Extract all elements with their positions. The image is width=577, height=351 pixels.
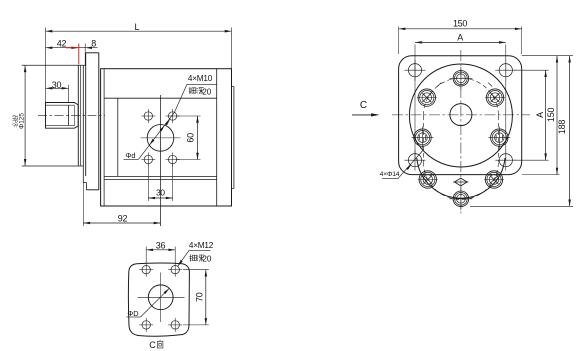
- svg-text:L: L: [134, 22, 139, 32]
- svg-text:C: C: [149, 340, 156, 350]
- svg-text:ΦD: ΦD: [127, 309, 138, 318]
- svg-text:20: 20: [202, 254, 212, 263]
- svg-text:Φd: Φd: [125, 151, 135, 160]
- svg-text:C: C: [360, 100, 367, 111]
- svg-text:8: 8: [91, 39, 96, 49]
- svg-text:4×Φ14: 4×Φ14: [380, 171, 400, 178]
- svg-text:150: 150: [546, 108, 556, 122]
- svg-text:30: 30: [52, 80, 62, 90]
- svg-text:70: 70: [195, 292, 205, 302]
- svg-text:-0.143: -0.143: [12, 114, 17, 127]
- svg-text:4×M10: 4×M10: [188, 74, 213, 83]
- svg-text:36: 36: [156, 241, 166, 251]
- svg-text:30: 30: [156, 188, 165, 198]
- svg-text:60: 60: [185, 133, 195, 143]
- svg-text:92: 92: [118, 214, 128, 224]
- svg-text:42: 42: [57, 39, 67, 49]
- svg-text:Φ125: Φ125: [19, 113, 26, 129]
- svg-text:A: A: [535, 112, 545, 118]
- svg-text:A: A: [457, 32, 463, 42]
- svg-text:188: 188: [557, 120, 567, 134]
- svg-text:4×M12: 4×M12: [189, 241, 214, 250]
- svg-text:20: 20: [202, 87, 212, 96]
- svg-text:150: 150: [453, 19, 467, 29]
